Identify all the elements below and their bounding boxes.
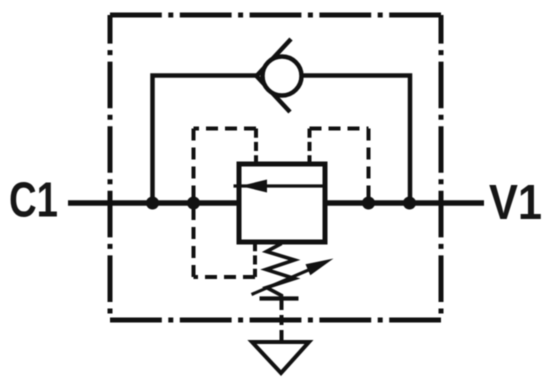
wire: check-valve bypass left riser bbox=[153, 76, 257, 204]
svg-text:V1: V1 bbox=[489, 176, 542, 230]
junction dot B (pilot left) bbox=[187, 197, 200, 210]
wire: check-valve bypass right riser bbox=[304, 76, 411, 204]
tank symbol bbox=[252, 342, 309, 373]
adjustable spring bbox=[260, 244, 299, 299]
wire: main line C1 side bbox=[68, 200, 241, 206]
check valve CV1 ball bbox=[263, 57, 302, 96]
wire: main line V1 side bbox=[323, 200, 484, 206]
pilot line left (dashed) bbox=[194, 129, 257, 204]
relief valve flow path arrow bbox=[234, 180, 326, 193]
pilot line right (dashed) bbox=[310, 129, 369, 204]
check valve CV1 seat bbox=[257, 39, 292, 112]
drain pilot line lower-left (dashed) bbox=[194, 206, 256, 277]
relief valve body (square) bbox=[239, 164, 325, 242]
svg-text:C1: C1 bbox=[9, 174, 58, 228]
junction dot C (pilot right) bbox=[362, 197, 375, 210]
junction dot A (bypass left) bbox=[146, 197, 159, 210]
valve envelope (dash-dot border) bbox=[110, 15, 441, 320]
drain line to tank (dashed) bbox=[280, 300, 284, 342]
junction dot D (bypass right) bbox=[403, 197, 416, 210]
spring adjustment arrow bbox=[252, 259, 334, 295]
